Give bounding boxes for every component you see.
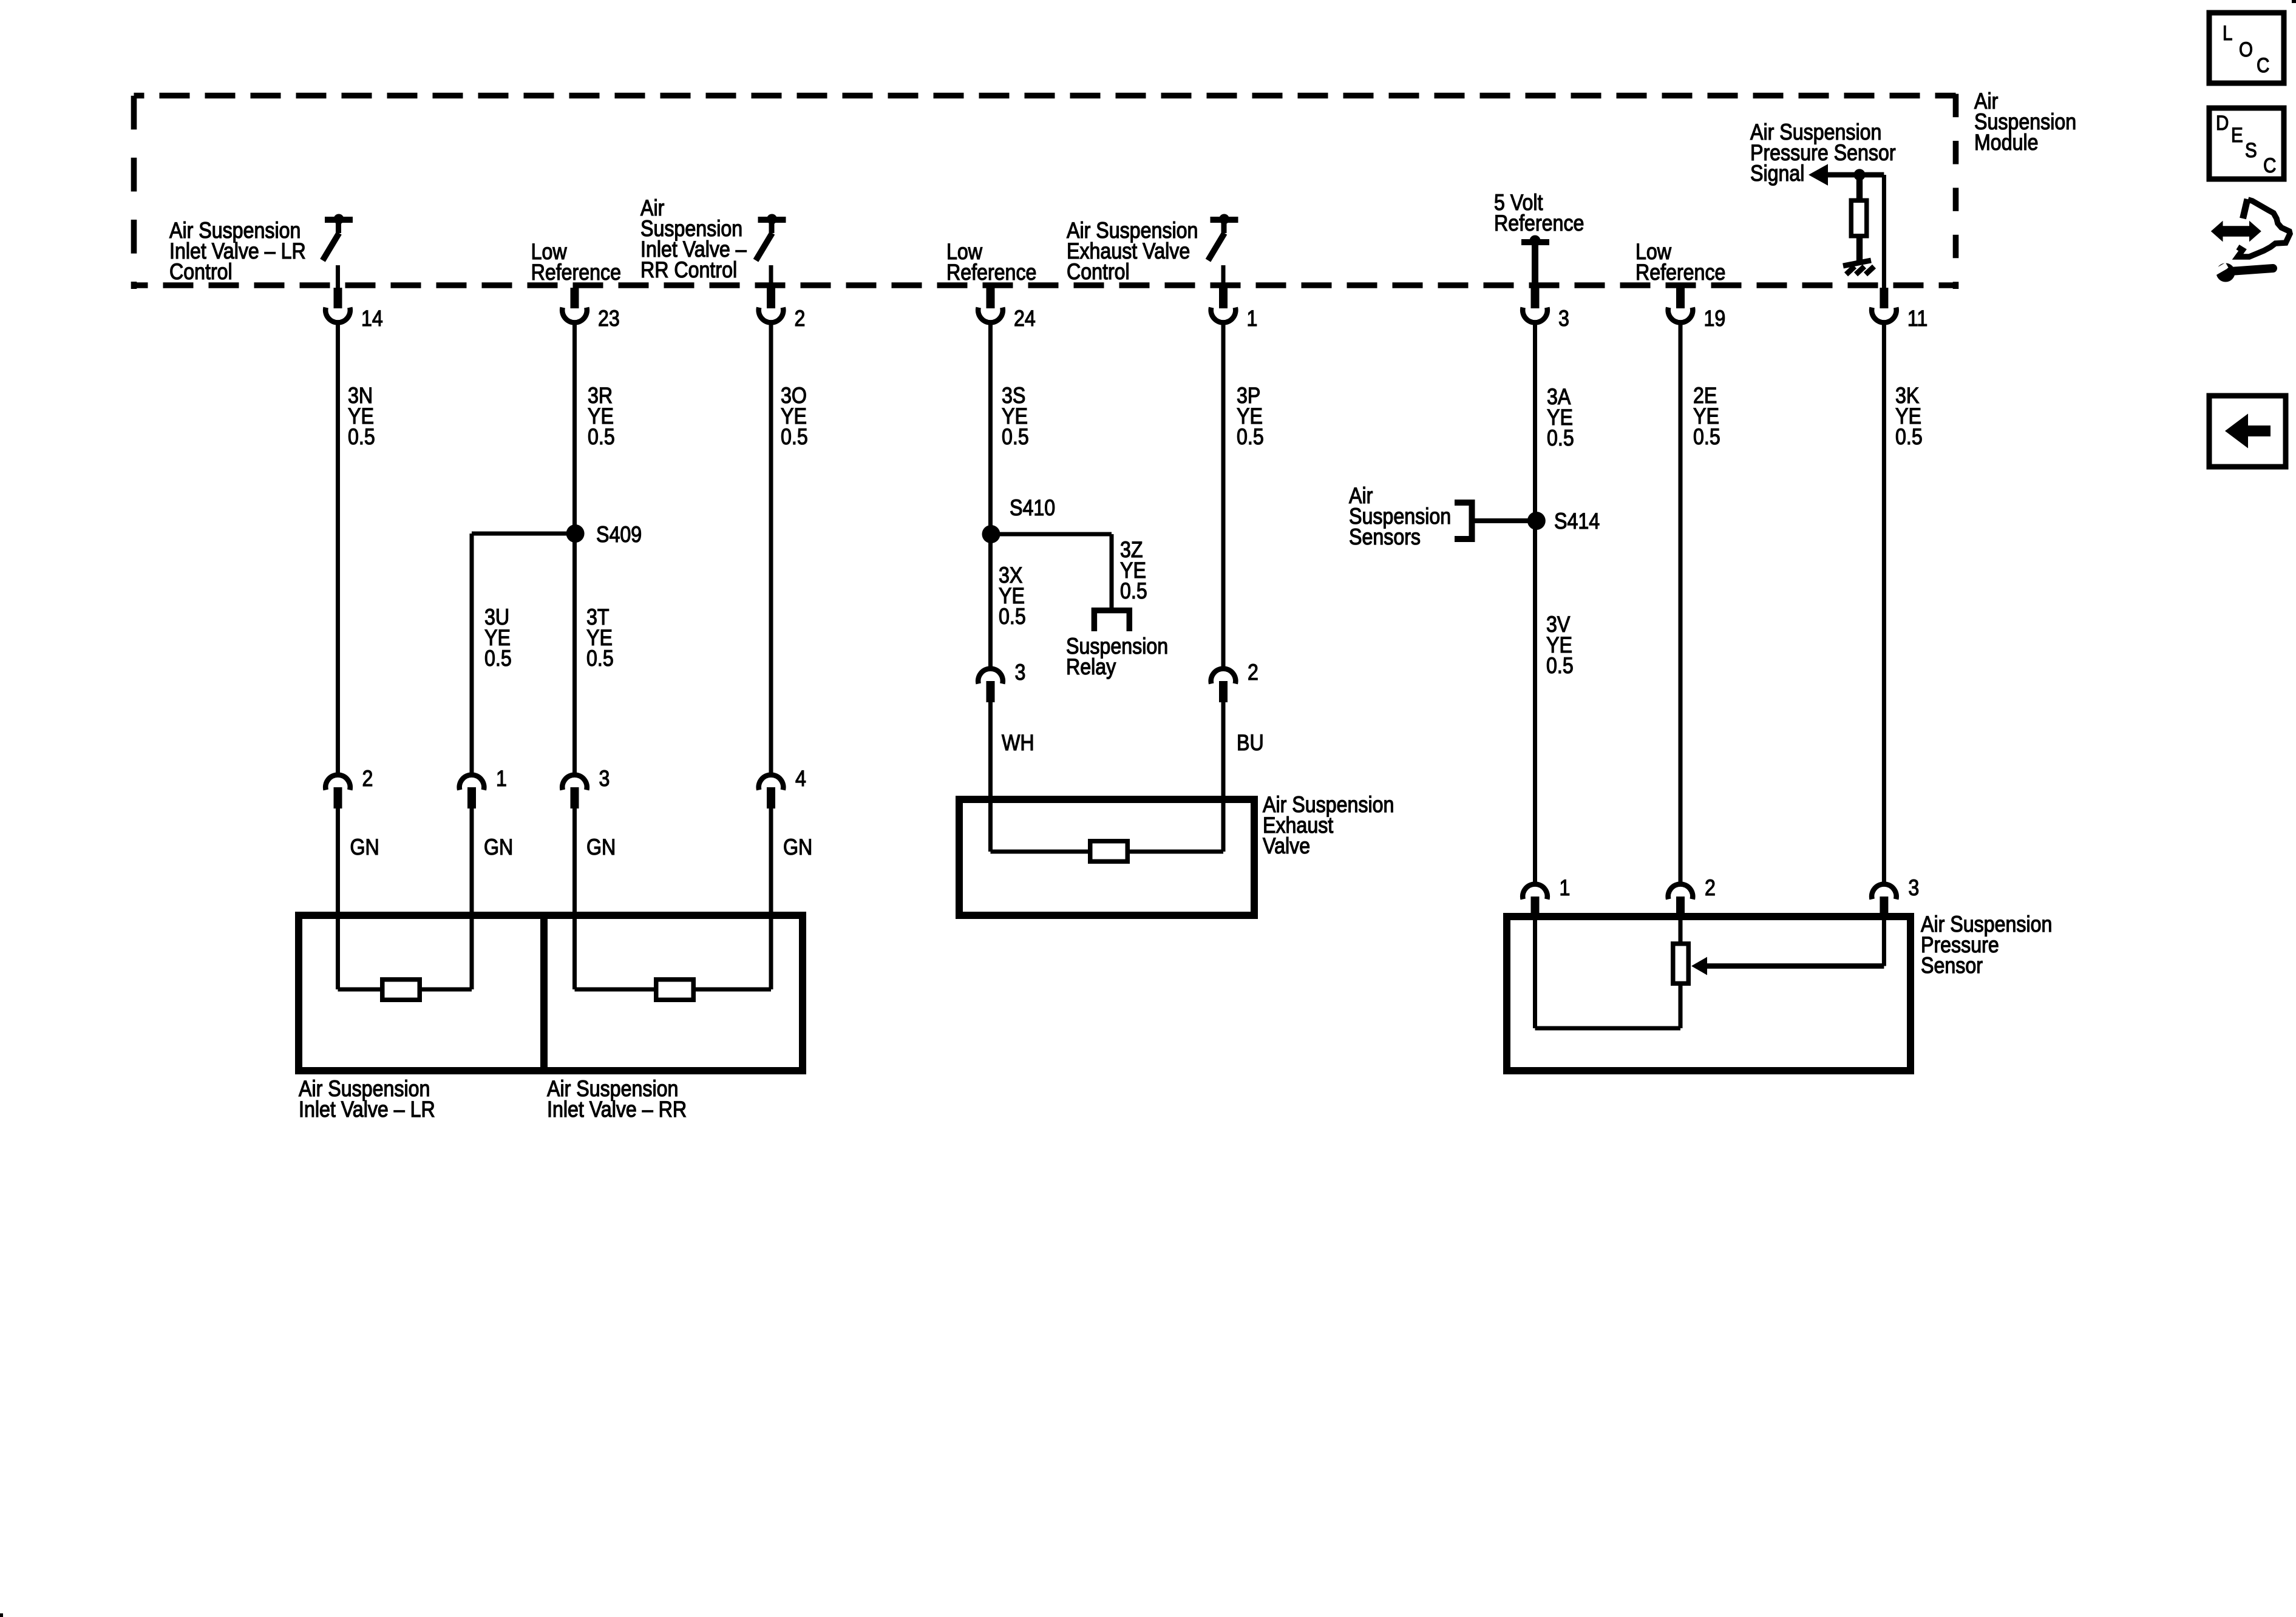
- air suspension module dashed box (left edge): [131, 96, 137, 289]
- svg-text:E: E: [2231, 123, 2243, 146]
- pin 23: [571, 288, 579, 308]
- svg-text:0.5: 0.5: [348, 425, 375, 450]
- svg-text:3: 3: [1015, 660, 1026, 685]
- svg-text:GN: GN: [350, 835, 379, 860]
- svg-text:Reference: Reference: [1635, 260, 1725, 285]
- svg-text:GN: GN: [484, 835, 513, 860]
- icon back-arrow box: [2209, 396, 2286, 467]
- air suspension pressure sensor box: [1507, 917, 1911, 1071]
- svg-text:2: 2: [795, 307, 806, 331]
- valve symbol: Air Suspension Inlet Valve - RR Control: [758, 217, 786, 223]
- air suspension module dashed box (bottom edge): [134, 282, 1956, 288]
- svg-text:3: 3: [1558, 307, 1569, 331]
- svg-text:Reference: Reference: [531, 260, 621, 285]
- svg-text:0.5: 0.5: [781, 425, 808, 450]
- wire branch S409 to pin 1 of LR valve: [472, 532, 576, 536]
- svg-text:23: 23: [598, 307, 620, 331]
- air suspension module dashed box (top edge): [134, 93, 1956, 99]
- inlet valve LR coil wiring: [338, 988, 381, 992]
- svg-text:0.5: 0.5: [1895, 425, 1923, 450]
- svg-text:0.5: 0.5: [1002, 425, 1029, 450]
- svg-text:C: C: [2257, 53, 2269, 76]
- svg-text:2: 2: [1705, 876, 1716, 901]
- svg-text:11: 11: [1907, 307, 1927, 331]
- wire 3P YE 0.5: [1221, 323, 1226, 668]
- icon vehicle with arrows and wrench: [2211, 221, 2261, 242]
- connector pin 4 (inlet valve RR): [759, 775, 784, 790]
- wire into pressure sensor pin 3: [1882, 918, 1886, 966]
- wire 3S YE 0.5: [988, 323, 993, 535]
- connector pin 2 (inlet valve LR): [325, 775, 350, 790]
- page corner mark: [0, 1613, 3, 1617]
- svg-text:Control: Control: [1067, 260, 1130, 285]
- wire 3N YE 0.5: [336, 323, 340, 776]
- pin 3 (module): [1531, 288, 1540, 308]
- svg-text:1: 1: [1560, 876, 1571, 901]
- solenoid coil (exhaust valve): [1090, 841, 1128, 862]
- connector pin 2 (pressure sensor): [1668, 884, 1693, 900]
- air suspension exhaust valve box: [959, 799, 1254, 915]
- svg-text:S: S: [2245, 138, 2257, 161]
- svg-text:0.5: 0.5: [1120, 579, 1147, 604]
- connector pin 3 (pressure sensor): [1872, 884, 1897, 900]
- splice S410: [982, 525, 1000, 543]
- 5 volt reference supply symbol: [1521, 239, 1549, 245]
- svg-text:1: 1: [1247, 307, 1258, 331]
- svg-text:19: 19: [1704, 307, 1726, 331]
- svg-text:0.5: 0.5: [1547, 426, 1574, 451]
- page corner mark top right: [2292, 0, 2296, 3]
- svg-text:Sensors: Sensors: [1349, 525, 1421, 550]
- wire BU to exhaust valve: [1221, 702, 1226, 852]
- svg-text:24: 24: [1014, 307, 1036, 331]
- svg-text:0.5: 0.5: [588, 425, 615, 450]
- pin 19: [1676, 288, 1685, 308]
- wire 3K YE 0.5: [1882, 325, 1886, 882]
- connector pin 1 (pressure sensor): [1523, 884, 1547, 900]
- connector pin 1 (inlet valve LR): [460, 775, 484, 790]
- wire GN to inlet valve RR pin 4: [769, 808, 773, 989]
- wire 2E YE 0.5: [1679, 323, 1683, 883]
- connector pin 2 (exhaust valve): [1211, 669, 1236, 684]
- svg-text:4: 4: [795, 767, 806, 792]
- svg-text:0.5: 0.5: [1546, 654, 1574, 679]
- icon DESC box: [2209, 108, 2284, 179]
- resistor R (module internal, pressure sensor pull-up): [1856, 178, 1863, 200]
- wire 3A YE 0.5: [1533, 323, 1537, 522]
- air suspension sensors bracket: [1455, 500, 1475, 506]
- suspension relay terminal bracket: [1092, 608, 1132, 614]
- svg-text:3: 3: [599, 767, 610, 792]
- valve symbol: Air Suspension Inlet Valve - LR Control: [325, 217, 353, 223]
- svg-text:Relay: Relay: [1066, 655, 1116, 680]
- wire 3R YE 0.5: [572, 323, 577, 535]
- wire into pressure sensor pin 1: [1533, 918, 1537, 1028]
- potentiometer (pressure sensor): [1673, 944, 1689, 984]
- svg-text:Reference: Reference: [946, 260, 1036, 285]
- connector pin 3 (inlet valve RR): [562, 775, 587, 790]
- wire into pressure sensor pin 2: [1679, 918, 1683, 943]
- wire GN to inlet valve LR pin 2: [336, 808, 340, 989]
- solenoid coil (inlet valve LR): [382, 980, 420, 1000]
- svg-text:C: C: [2263, 154, 2276, 177]
- splice S409: [566, 524, 585, 543]
- svg-text:0.5: 0.5: [586, 646, 614, 671]
- svg-text:0.5: 0.5: [1237, 425, 1264, 450]
- pin 1 (module): [1219, 288, 1228, 308]
- svg-text:3: 3: [1908, 876, 1919, 901]
- svg-text:2: 2: [1248, 660, 1258, 685]
- icon LOC box: [2209, 13, 2284, 83]
- svg-text:S414: S414: [1554, 509, 1600, 534]
- svg-text:Inlet Valve – LR: Inlet Valve – LR: [299, 1097, 435, 1122]
- svg-text:Inlet Valve – RR: Inlet Valve – RR: [547, 1097, 687, 1122]
- ground (module internal): [1843, 260, 1871, 266]
- potentiometer wiper arrow: [1707, 963, 1884, 969]
- wire 3Z YE 0.5 branch to suspension relay: [991, 532, 1112, 537]
- svg-text:Sensor: Sensor: [1921, 954, 1983, 978]
- svg-text:14: 14: [361, 307, 383, 331]
- splice S414: [1527, 512, 1546, 530]
- inlet valve RR coil wiring: [575, 988, 654, 992]
- wire GN to inlet valve LR pin 1: [470, 808, 474, 989]
- wire WH to exhaust valve: [988, 702, 993, 852]
- svg-text:D: D: [2216, 111, 2229, 134]
- pressure sensor internal wiring: [1535, 1026, 1681, 1031]
- exhaust valve coil wiring: [991, 850, 1089, 854]
- svg-text:Control: Control: [169, 260, 233, 285]
- svg-text:GN: GN: [783, 835, 812, 860]
- svg-text:Module: Module: [1974, 131, 2039, 155]
- svg-text:Reference: Reference: [1494, 211, 1584, 236]
- wire GN to inlet valve RR pin 3: [572, 808, 577, 989]
- wire 3O YE 0.5: [769, 323, 773, 776]
- svg-text:O: O: [2239, 38, 2253, 61]
- svg-text:0.5: 0.5: [484, 646, 512, 671]
- solenoid coil (inlet valve RR): [656, 980, 694, 1000]
- pin 11: [1880, 288, 1888, 308]
- air suspension module dashed box (right edge): [1953, 94, 1959, 289]
- svg-text:Valve: Valve: [1263, 834, 1310, 859]
- svg-text:0.5: 0.5: [999, 605, 1026, 629]
- svg-text:S409: S409: [596, 523, 642, 547]
- pin 24: [987, 288, 995, 308]
- wire 3V YE 0.5 (S414 down): [1533, 521, 1537, 882]
- svg-text:GN: GN: [586, 835, 616, 860]
- svg-text:RR Control: RR Control: [640, 258, 737, 283]
- svg-text:L: L: [2223, 21, 2232, 44]
- wire 3X YE 0.5 (S410 down): [988, 534, 993, 667]
- wire pin 11 inside module: [1882, 175, 1886, 288]
- svg-text:Signal: Signal: [1750, 161, 1804, 186]
- svg-text:2: 2: [362, 767, 373, 792]
- svg-text:0.5: 0.5: [1693, 425, 1720, 450]
- svg-text:WH: WH: [1002, 731, 1034, 756]
- air suspension inlet valve LR/RR box: [299, 915, 803, 1071]
- node on signal line: [1853, 169, 1865, 180]
- signal arrow (pressure sensor signal): [1809, 164, 1828, 185]
- pin 2 (module): [767, 288, 775, 308]
- valve symbol: Air Suspension Exhaust Valve Control: [1211, 217, 1238, 223]
- svg-text:1: 1: [496, 767, 507, 792]
- svg-text:S410: S410: [1010, 496, 1055, 521]
- connector pin 3 (exhaust valve): [978, 669, 1003, 684]
- pin 14: [334, 288, 342, 308]
- svg-text:BU: BU: [1237, 731, 1264, 756]
- wire 3T YE 0.5 (S409 down): [572, 534, 577, 775]
